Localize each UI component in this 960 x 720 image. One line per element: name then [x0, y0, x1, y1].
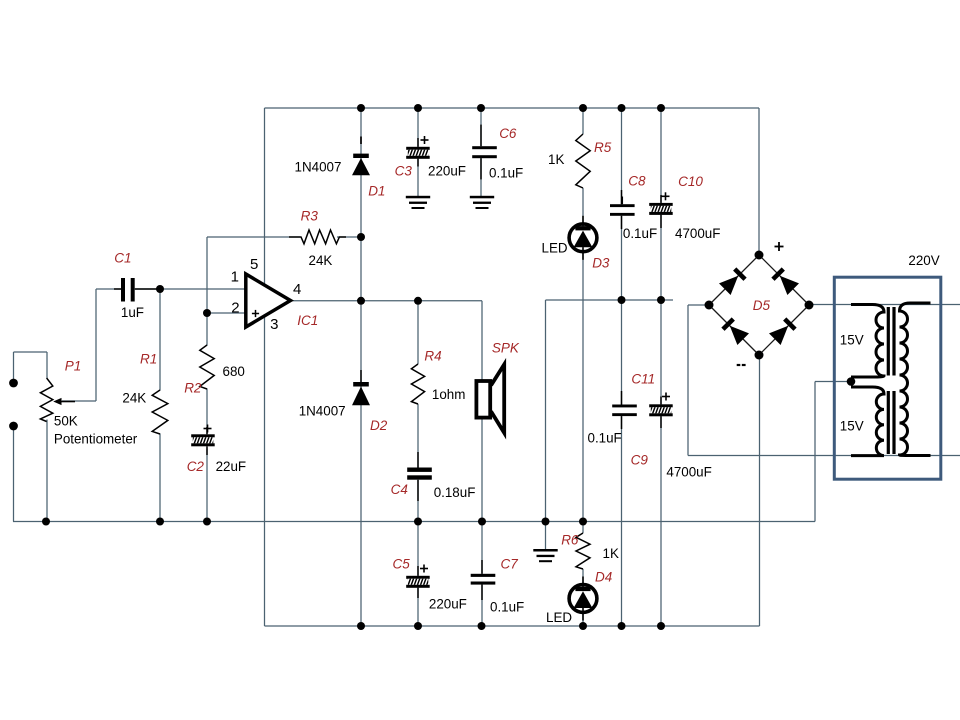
svg-text:1N4007: 1N4007 [299, 404, 346, 419]
svg-text:D4: D4 [595, 570, 612, 585]
svg-text:220V: 220V [908, 253, 939, 268]
svg-text:4700uF: 4700uF [675, 226, 720, 241]
svg-text:C7: C7 [501, 557, 519, 572]
svg-text:D1: D1 [368, 184, 385, 199]
svg-text:1uF: 1uF [121, 305, 144, 320]
svg-text:680: 680 [223, 364, 245, 379]
svg-text:0.18uF: 0.18uF [434, 485, 476, 500]
svg-text:24K: 24K [309, 253, 333, 268]
svg-text:220uF: 220uF [428, 164, 466, 179]
svg-text:22uF: 22uF [216, 459, 247, 474]
svg-text:C8: C8 [628, 174, 646, 189]
svg-text:1K: 1K [603, 546, 619, 561]
svg-text:1: 1 [231, 269, 239, 286]
svg-text:1K: 1K [548, 152, 564, 167]
svg-text:4700uF: 4700uF [666, 465, 711, 480]
svg-text:D3: D3 [592, 256, 610, 271]
svg-text:220uF: 220uF [429, 597, 467, 612]
svg-text:C3: C3 [395, 164, 413, 179]
svg-text:R5: R5 [594, 140, 612, 155]
svg-text:15V: 15V [840, 419, 864, 434]
svg-text:0.1uF: 0.1uF [489, 166, 523, 181]
svg-text:C6: C6 [499, 126, 517, 141]
svg-text:LED: LED [542, 241, 568, 256]
svg-text:15V: 15V [840, 333, 864, 348]
svg-text:4: 4 [293, 281, 301, 298]
svg-text:C2: C2 [187, 459, 205, 474]
svg-text:0.1uF: 0.1uF [588, 431, 622, 446]
svg-text:IC1: IC1 [297, 313, 318, 328]
svg-text:1N4007: 1N4007 [295, 160, 342, 175]
svg-text:LED: LED [546, 610, 572, 625]
svg-text:50K: 50K [54, 414, 78, 429]
svg-text:R2: R2 [184, 381, 202, 396]
svg-text:24K: 24K [122, 391, 146, 406]
svg-text:C4: C4 [391, 482, 408, 497]
svg-text:2: 2 [231, 300, 239, 317]
svg-text:D2: D2 [370, 418, 388, 433]
svg-text:0.1uF: 0.1uF [623, 226, 657, 241]
svg-text:C10: C10 [678, 174, 703, 189]
svg-text:C1: C1 [114, 251, 131, 266]
svg-text:R3: R3 [301, 209, 319, 224]
svg-text:1ohm: 1ohm [432, 387, 466, 402]
svg-text:0.1uF: 0.1uF [490, 600, 524, 615]
svg-text:5: 5 [250, 256, 258, 273]
svg-text:C9: C9 [631, 453, 649, 468]
svg-text:R4: R4 [424, 349, 441, 364]
svg-text:C5: C5 [393, 557, 411, 572]
svg-text:3: 3 [270, 316, 278, 333]
svg-text:Potentiometer: Potentiometer [54, 432, 138, 447]
svg-text:R6: R6 [561, 533, 579, 548]
svg-text:SPK: SPK [492, 341, 520, 356]
svg-text:R1: R1 [140, 352, 157, 367]
svg-text:C11: C11 [631, 372, 655, 387]
svg-text:D5: D5 [753, 298, 771, 313]
svg-text:P1: P1 [65, 359, 82, 374]
